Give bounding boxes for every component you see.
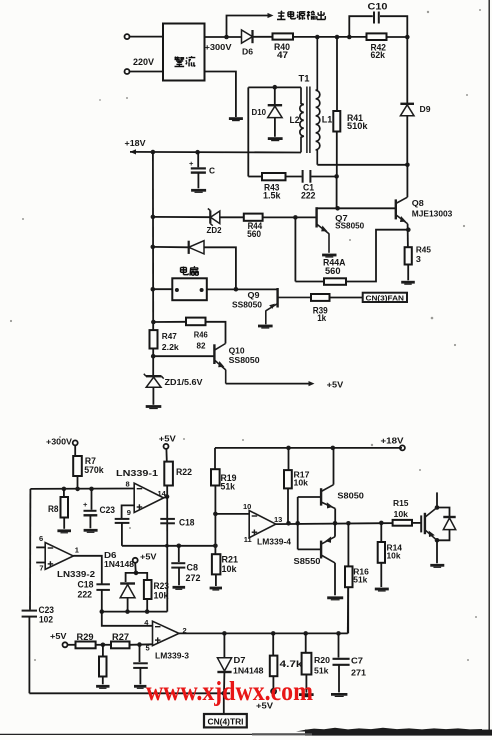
ground pin5 cap xyxy=(134,686,146,688)
node C23 top xyxy=(89,487,94,492)
wire LM339-3 output bus xyxy=(179,632,348,634)
node D10 top junction xyxy=(273,85,278,90)
resistor R17 xyxy=(284,470,292,488)
svg-text:10: 10 xyxy=(243,502,251,511)
svg-text:+18V: +18V xyxy=(125,139,147,148)
resistor R23 xyxy=(144,580,152,599)
wire R16 to LM339-3 output bus xyxy=(347,587,349,633)
wire to R44A xyxy=(295,281,324,283)
node pin5 cap junction xyxy=(137,642,142,647)
wire D10 cathode lead xyxy=(274,87,276,104)
svg-text:D10: D10 xyxy=(252,108,267,117)
wire S8550 collector to ground xyxy=(334,563,336,595)
wire terminal to junction xyxy=(134,563,137,573)
svg-text:LM339-4: LM339-4 xyxy=(257,538,292,547)
scan border right edge xyxy=(488,0,490,735)
wire rail to CN4 xyxy=(223,693,225,714)
wire bus to R16 xyxy=(347,523,349,566)
arrow +5V output xyxy=(309,381,315,386)
resistor R46 xyxy=(186,318,206,326)
svg-text:C7: C7 xyxy=(351,656,364,665)
node +5V terminal D6 xyxy=(133,558,138,563)
svg-text:220V: 220V xyxy=(133,57,154,67)
wire R23 to bus xyxy=(146,599,148,612)
svg-text:510k: 510k xyxy=(347,121,369,131)
ground below C xyxy=(191,190,206,192)
svg-text:9: 9 xyxy=(127,508,131,517)
diode fan flyback xyxy=(189,241,204,254)
svg-text:CN(4)TRI: CN(4)TRI xyxy=(208,718,244,727)
wire R41 top lead xyxy=(336,37,338,111)
resistor R15 xyxy=(393,520,412,526)
node +5V terminal R29 xyxy=(63,642,68,647)
svg-text:+: + xyxy=(189,159,194,168)
resistor R27 xyxy=(111,642,130,649)
node pin10 junction xyxy=(213,512,218,517)
node D9 bottom junction xyxy=(405,163,410,168)
svg-text:1N4148: 1N4148 xyxy=(104,560,135,569)
ground C23 xyxy=(84,530,98,532)
node base feed junction xyxy=(295,521,300,526)
svg-text:10k: 10k xyxy=(294,478,309,487)
svg-text:C23: C23 xyxy=(100,505,116,515)
resistor R21 xyxy=(212,554,221,574)
wire R43 to C1 xyxy=(286,176,302,178)
transistor S8550 (driver PNP) xyxy=(321,537,335,563)
wire D9 to bottom junction xyxy=(406,116,408,165)
wire LM339-1 inverting input bus xyxy=(30,488,134,490)
wire rail to R17 xyxy=(288,448,290,470)
svg-text:C18: C18 xyxy=(179,517,195,527)
svg-text:11: 11 xyxy=(244,535,252,544)
node C10 left junction xyxy=(347,35,352,40)
svg-text:222: 222 xyxy=(301,190,316,200)
wire R46 to Q10 collector xyxy=(206,322,226,344)
wire lower bus xyxy=(122,545,215,547)
ground R45 xyxy=(401,282,415,284)
ground C8 xyxy=(173,587,186,589)
node Q10 base junction xyxy=(151,354,156,359)
transistor S8050 (driver NPN) xyxy=(321,485,335,509)
svg-text:R21: R21 xyxy=(222,554,239,564)
node +300V terminal xyxy=(73,440,78,445)
transformer T1 core xyxy=(307,87,310,154)
wire R7 to node xyxy=(77,476,79,489)
svg-text:R20: R20 xyxy=(314,656,331,665)
capacitor C23 (electrolytic) xyxy=(83,500,97,515)
wire +18V rail bottom section xyxy=(215,447,402,449)
resistor R44 xyxy=(244,214,263,221)
inductor L2 (T1 primary-side winding) xyxy=(300,87,304,152)
svg-text:102: 102 xyxy=(39,614,53,624)
wire R44A to Q8 emitter xyxy=(346,230,408,282)
svg-text:C10: C10 xyxy=(368,2,388,12)
svg-text:L1: L1 xyxy=(322,115,333,125)
scan border bottom line xyxy=(0,733,492,735)
wire to D6 cathode xyxy=(126,573,136,582)
wire to freewheel diode xyxy=(437,508,450,517)
svg-text:L2: L2 xyxy=(290,115,300,125)
wire C18 to bus xyxy=(101,590,103,612)
svg-text:C18: C18 xyxy=(78,579,94,589)
resistor 4.7k xyxy=(270,656,278,677)
svg-text:R15: R15 xyxy=(393,499,409,508)
ground R20 xyxy=(299,695,314,697)
wire to S8050 base xyxy=(298,496,321,498)
wire left rail lower xyxy=(28,617,30,694)
wire D10 anode lead xyxy=(274,118,276,137)
wire node to R8 xyxy=(63,489,65,497)
node R23 bottom xyxy=(145,609,150,614)
diode D9 xyxy=(400,104,414,116)
connector CN(4) TRI xyxy=(204,714,247,727)
transistor Q8 MJE13003 xyxy=(396,197,408,224)
svg-text:R27: R27 xyxy=(112,632,129,642)
node R41 top junction xyxy=(335,35,340,40)
wire bus corner to R16 xyxy=(347,587,349,633)
wire IGBT collector stub xyxy=(436,492,438,507)
svg-text:1: 1 xyxy=(75,545,79,554)
resistor R7 xyxy=(73,456,82,476)
svg-text:8: 8 xyxy=(126,479,130,488)
resistor R29 xyxy=(76,642,96,649)
wire R27 to pin 5 xyxy=(130,643,153,646)
wire Q7 base junction down xyxy=(294,217,296,281)
resistor R39 xyxy=(311,294,330,301)
svg-text:LN339-2: LN339-2 xyxy=(57,570,96,579)
wire apex to node xyxy=(164,497,167,498)
wire R47 to ZD1 xyxy=(152,349,154,376)
diode freewheel at IGBT xyxy=(443,517,455,530)
transistor Q7 SS8050 xyxy=(317,207,329,253)
svg-text:MJE13003: MJE13003 xyxy=(412,210,453,219)
wire R39 to CN3 xyxy=(330,297,363,299)
svg-text:560: 560 xyxy=(325,266,341,276)
svg-text:82: 82 xyxy=(197,342,207,351)
svg-text:560: 560 xyxy=(247,229,261,239)
node fan terminal right xyxy=(200,288,204,292)
node LM339-1 output xyxy=(165,494,170,499)
wire C8 to ground xyxy=(178,568,180,586)
wire S8050 emitter to bus xyxy=(334,509,336,524)
node S8050 collector xyxy=(331,446,336,451)
svg-text:R47: R47 xyxy=(162,332,178,341)
resistor R16 xyxy=(345,566,353,587)
wire loop to R43 xyxy=(248,176,262,178)
wire D6 anode to bus xyxy=(127,598,129,612)
node fan row junction xyxy=(151,287,156,292)
svg-text:+18V: +18V xyxy=(381,436,405,445)
wire to capacitor C xyxy=(197,152,199,167)
svg-text:10k: 10k xyxy=(222,564,238,574)
resistor R42 xyxy=(367,33,387,40)
wire bus to R14 xyxy=(380,523,382,542)
wire +18V rail to R19 xyxy=(214,448,216,469)
node C18 crossing xyxy=(165,544,169,548)
node D7 top xyxy=(222,631,227,636)
ground below D10 xyxy=(268,139,283,141)
capacitor C7 xyxy=(333,659,350,665)
svg-text:LM339-3: LM339-3 xyxy=(155,652,190,661)
wire rectifier +300V output xyxy=(205,36,242,38)
connector CN(3) FAN xyxy=(363,293,407,303)
svg-text:R46: R46 xyxy=(194,331,209,340)
svg-text:D6: D6 xyxy=(104,551,117,560)
node T1 L1 top junction xyxy=(315,35,320,40)
node +5V terminal R22 xyxy=(164,444,169,449)
wire 4.7k to +5V terminal xyxy=(272,676,274,688)
wire fan diode to fan wire xyxy=(204,247,236,289)
node D7 / bottom rail xyxy=(222,691,227,696)
wire R8 to ground xyxy=(63,518,65,529)
wire to LM339-3 pin 4 xyxy=(102,612,153,626)
wire R40 to R42 xyxy=(293,36,367,38)
svg-text:272: 272 xyxy=(186,573,201,583)
transistor Q10 SS8050 xyxy=(214,344,225,384)
wire R42 to D9 branch xyxy=(387,36,408,38)
op-amp U4 LM339-3 xyxy=(153,621,180,645)
node R7 bottom xyxy=(75,487,80,492)
wire ZD2 to R44 xyxy=(220,216,244,218)
wire bus to R20 xyxy=(305,633,307,652)
wire IGBT emitter to ground xyxy=(436,540,438,563)
wire junction down to Q7 collector wire xyxy=(336,176,338,208)
label electric fan (dianshan) xyxy=(181,267,199,276)
node D6 anode xyxy=(125,609,130,614)
wire R22 to output node xyxy=(166,486,168,497)
diode D10 xyxy=(268,105,282,117)
capacitor C8 xyxy=(171,563,185,567)
ground divider xyxy=(96,686,109,688)
svg-text:+300V: +300V xyxy=(205,43,233,52)
wire left column upper xyxy=(152,152,154,330)
svg-text:13: 13 xyxy=(274,515,282,524)
capacitor at pin 9 xyxy=(115,519,130,523)
ground Q7 emitter xyxy=(322,255,336,257)
svg-text:271: 271 xyxy=(351,668,367,677)
node C10 right junction xyxy=(405,35,410,40)
wire D6 to R40 xyxy=(254,36,273,38)
svg-text:D6: D6 xyxy=(242,48,254,57)
wire node to C23 xyxy=(91,489,93,510)
node R17 bottom xyxy=(286,521,291,526)
node IGBT emitter xyxy=(435,538,440,543)
wire to C10 left xyxy=(349,16,373,37)
diode D7 1N4148 xyxy=(217,658,231,672)
svg-text:10k: 10k xyxy=(394,510,409,519)
node 4.7k top xyxy=(271,631,276,636)
node 220V input terminal 1 xyxy=(125,34,130,39)
svg-text:Q10: Q10 xyxy=(229,347,246,356)
wire terminal to R29 xyxy=(68,644,76,646)
svg-text:62k: 62k xyxy=(371,50,386,60)
rectifier bridge box xyxy=(163,24,205,81)
wire L1 bottom to D9 junction xyxy=(317,164,407,166)
wire left column to fan xyxy=(153,288,173,290)
arrow main power output xyxy=(268,13,274,18)
node fan diode / fan wire junction xyxy=(234,287,239,292)
diode D6 xyxy=(242,30,253,43)
node C8 top xyxy=(177,544,182,549)
node R8 top xyxy=(62,487,67,492)
op-amp U3 LM339-2 xyxy=(45,543,73,570)
wire D7 to bottom rail xyxy=(223,672,225,693)
zener diode ZD2 xyxy=(208,209,220,226)
svg-text:7: 7 xyxy=(39,564,43,573)
svg-text:+5V: +5V xyxy=(50,632,67,641)
wire resistor to ground xyxy=(102,677,104,685)
svg-text:1.5k: 1.5k xyxy=(263,190,281,200)
node divider junction xyxy=(101,643,106,648)
node R16 top xyxy=(346,521,351,526)
svg-text:T1: T1 xyxy=(299,74,310,84)
capacitor C10 xyxy=(374,12,379,24)
node push-pull emitter junction xyxy=(333,521,338,526)
svg-text:SS8050: SS8050 xyxy=(229,356,261,365)
resistor (divider to ground) xyxy=(99,657,107,677)
wire pin 6 stub xyxy=(36,546,45,548)
wire junction down to D9 xyxy=(406,37,408,104)
wire R41 bottom lead xyxy=(336,132,338,177)
node +18V rail / left column junction xyxy=(151,150,156,155)
ground R14 xyxy=(375,589,389,591)
svg-text:D9: D9 xyxy=(420,105,432,114)
svg-text:R22: R22 xyxy=(176,467,192,477)
svg-text:ZD2: ZD2 xyxy=(207,226,223,235)
wire +18V rail xyxy=(130,151,301,154)
wire diode anode to emitter xyxy=(437,530,450,541)
svg-text:10k: 10k xyxy=(387,552,402,561)
node +300V junction xyxy=(224,35,229,40)
wire base feed vertical xyxy=(297,497,299,549)
node 220V input terminal 2 xyxy=(125,69,130,74)
node +5V terminal 4.7k xyxy=(271,689,276,694)
wire +5V to R22 xyxy=(165,449,167,462)
wire R19 to R21 xyxy=(214,486,216,555)
node C7 top xyxy=(336,631,341,636)
node R21 top junction xyxy=(213,544,218,549)
svg-text:Q8: Q8 xyxy=(412,199,425,208)
svg-text:R8: R8 xyxy=(48,504,59,514)
wire down to Q8 collector xyxy=(406,165,408,197)
node R46 row junction xyxy=(151,320,156,325)
svg-text:51k: 51k xyxy=(314,666,329,675)
ground S8550 xyxy=(327,598,343,600)
wire C to ground xyxy=(197,173,199,189)
wire to Q10 base xyxy=(153,355,214,357)
fan (motor) box xyxy=(172,278,207,300)
svg-text:CN(3)FAN: CN(3)FAN xyxy=(366,295,405,302)
svg-text:47: 47 xyxy=(277,50,288,60)
svg-text:570k: 570k xyxy=(84,465,104,475)
wire rectifier to ground xyxy=(205,72,236,118)
capacitor C23 102 xyxy=(22,611,37,617)
node R17 top xyxy=(286,446,291,451)
svg-text:10k: 10k xyxy=(154,591,170,601)
svg-text:+5V: +5V xyxy=(159,434,177,443)
svg-text:D7: D7 xyxy=(234,656,247,665)
resistor R43 xyxy=(262,173,286,180)
wire main power output branch xyxy=(227,16,270,38)
svg-text:www.xjdwx.com: www.xjdwx.com xyxy=(146,676,313,706)
wire R20 to ground xyxy=(305,675,307,693)
node D6/R23 feed junction xyxy=(134,571,139,576)
ground ZD1 xyxy=(146,407,162,409)
capacitor C18 (pin14 node) xyxy=(160,519,175,523)
resistor R47 xyxy=(150,330,158,348)
ground rectifier output xyxy=(229,119,243,121)
resistor R14 xyxy=(378,542,385,563)
wire Q10 emitter +5V xyxy=(226,383,309,385)
wire fan to Q9 xyxy=(207,288,278,290)
wire C23 to ground xyxy=(89,515,91,528)
node R41 bottom to collector wire xyxy=(335,206,340,211)
wire to S8550 base xyxy=(298,548,321,550)
node IGBT collector xyxy=(435,505,440,510)
wire pin 7 stub xyxy=(36,562,45,564)
wire pin9 to cap xyxy=(122,505,135,518)
svg-text:51k: 51k xyxy=(221,482,236,492)
resistor R20 xyxy=(302,653,312,675)
resistor R41 xyxy=(333,111,340,132)
wire D6/R23 bus xyxy=(102,611,168,613)
svg-text:C8: C8 xyxy=(187,563,199,573)
svg-text:+5V: +5V xyxy=(140,552,157,561)
resistor R40 xyxy=(273,33,294,39)
capacitor C18 222 xyxy=(96,584,110,590)
svg-text:2.2k: 2.2k xyxy=(162,343,180,352)
node D6 bus left xyxy=(100,609,105,614)
scan artifact dark bar bottom right xyxy=(252,728,492,736)
capacitor C (electrolytic) xyxy=(189,159,206,173)
wire to R46 xyxy=(153,321,186,323)
wire 220V top to rectifier xyxy=(130,36,163,38)
svg-text:R29: R29 xyxy=(77,632,94,642)
svg-text:3: 3 xyxy=(416,255,422,264)
resistor R8 xyxy=(61,497,69,518)
node R20 top xyxy=(303,631,308,636)
zener diode ZD1 xyxy=(144,374,164,388)
node R14 top xyxy=(379,521,384,526)
node R41/C1 junction xyxy=(334,174,339,179)
wire bus to C7 xyxy=(338,633,340,657)
wire R29 to R27 xyxy=(96,644,111,646)
wire bus to C8 xyxy=(178,546,180,562)
wire pin5 to cap xyxy=(139,645,141,662)
wire cap to bus xyxy=(121,523,123,546)
node +18V terminal xyxy=(400,445,405,450)
label rectifier (zhengliu) xyxy=(175,57,196,67)
svg-text:6: 6 xyxy=(39,534,43,543)
svg-text:ZD1/5.6V: ZD1/5.6V xyxy=(165,378,204,387)
ground IGBT xyxy=(430,565,444,567)
wire output node down to D6 bus xyxy=(166,497,168,612)
ground R21 xyxy=(210,588,222,590)
wire C7 to ground xyxy=(338,665,340,693)
wire ZD1 to ground xyxy=(152,387,154,405)
wire R21 to ground xyxy=(215,574,217,586)
node R44A to Q8 emitter junction xyxy=(406,227,411,232)
node ZD2 row junction xyxy=(151,215,156,220)
wire to ZD2 xyxy=(153,216,210,218)
svg-text:R23: R23 xyxy=(154,581,170,591)
svg-text:C23: C23 xyxy=(39,605,55,615)
wire D10 loop left vertical xyxy=(247,87,249,176)
svg-text:+5V: +5V xyxy=(327,380,344,389)
diode D6 1N4148 xyxy=(120,584,135,598)
wire cap to ground xyxy=(139,668,141,684)
ground C7 xyxy=(331,694,347,696)
